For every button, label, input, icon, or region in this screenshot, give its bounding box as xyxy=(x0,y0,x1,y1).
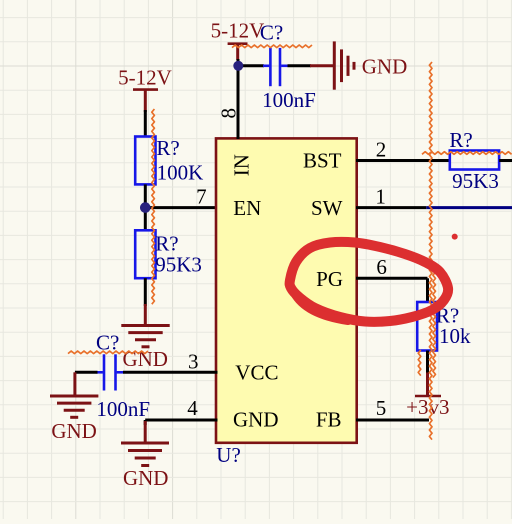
capacitor C2 100nF xyxy=(96,331,150,422)
svg-text:SW: SW xyxy=(311,196,343,220)
svg-text:95K3: 95K3 xyxy=(155,253,202,277)
ERC squiggle V4 below R4 xyxy=(418,350,421,376)
svg-text:FB: FB xyxy=(316,407,342,431)
svg-text:U?: U? xyxy=(216,443,241,467)
svg-text:4: 4 xyxy=(187,396,198,420)
svg-text:GND: GND xyxy=(51,419,97,443)
svg-text:GND: GND xyxy=(362,55,408,79)
junction node EN divider xyxy=(140,202,151,213)
wire R1 to R2 xyxy=(144,184,147,230)
wire power to R1 xyxy=(144,110,147,138)
resistor R2 95K3 xyxy=(135,230,202,278)
wire R3 to edge xyxy=(499,159,512,162)
ground A below R2 xyxy=(121,304,169,371)
svg-text:10k: 10k xyxy=(439,324,471,348)
resistor R3 95K3 xyxy=(449,128,499,193)
svg-text:100nF: 100nF xyxy=(262,88,316,112)
svg-text:5-12V: 5-12V xyxy=(118,66,172,90)
resistor R4 10k xyxy=(417,302,471,351)
ERC squiggle V3 R4 right xyxy=(433,272,436,378)
power port +3v3 xyxy=(406,373,449,420)
svg-text:100K: 100K xyxy=(157,161,204,185)
regulator U1 body xyxy=(216,138,357,442)
capacitor C1 100nF xyxy=(260,20,316,112)
svg-text:R?: R? xyxy=(156,136,179,160)
resistor R1 100K xyxy=(135,136,203,185)
power port 5-12V (top) xyxy=(211,18,265,60)
wire VCC pin 3 xyxy=(123,371,218,374)
svg-text:VCC: VCC xyxy=(235,360,278,384)
wire top node to C1 xyxy=(238,64,264,67)
wire PG pin 6 xyxy=(356,278,428,303)
ERC squiggle H1 top xyxy=(232,45,312,48)
svg-text:EN: EN xyxy=(233,196,261,220)
wire SW pin 1 (pin) xyxy=(356,206,426,209)
svg-text:R?: R? xyxy=(449,128,472,152)
svg-text:95K3: 95K3 xyxy=(452,169,499,193)
svg-text:7: 7 xyxy=(196,185,207,209)
svg-text:PG: PG xyxy=(316,267,343,291)
svg-text:100nF: 100nF xyxy=(96,397,150,421)
ERC squiggle H3 above C2 xyxy=(68,351,148,354)
svg-text:3: 3 xyxy=(188,349,199,373)
wire EN pin 7 xyxy=(145,206,217,209)
ground D right of C1 xyxy=(310,41,407,89)
svg-text:2: 2 xyxy=(376,138,387,162)
wire FB pin 5 xyxy=(356,419,429,422)
ERC squiggle V1 left divider xyxy=(152,109,155,304)
ERC squiggle H2 R3 row xyxy=(422,152,512,155)
junction node top xyxy=(233,61,243,71)
wire R2 to ground A xyxy=(144,278,147,306)
wire SW net (blue) xyxy=(426,206,512,209)
ground C below pin 4 xyxy=(121,421,169,490)
svg-text:BST: BST xyxy=(303,149,342,173)
ground B left xyxy=(50,372,98,443)
svg-text:1: 1 xyxy=(375,185,386,209)
svg-text:GND: GND xyxy=(233,407,279,431)
svg-text:GND: GND xyxy=(123,466,169,490)
svg-text:C?: C? xyxy=(260,20,283,44)
ERC squiggle V2 right long xyxy=(429,62,432,440)
svg-text:+3v3: +3v3 xyxy=(406,395,449,419)
svg-text:5-12V: 5-12V xyxy=(211,18,265,42)
wire R4 to power xyxy=(426,351,429,375)
red annotation dot xyxy=(452,234,458,240)
power port 5-12V (left) xyxy=(118,66,172,113)
svg-text:6: 6 xyxy=(376,255,387,279)
svg-text:IN: IN xyxy=(230,154,254,176)
red annotation circle around PG xyxy=(290,242,449,322)
wire pin 8 IN xyxy=(237,59,240,139)
svg-text:5: 5 xyxy=(376,396,387,420)
wire GND pin 4 xyxy=(145,420,217,425)
wire C2 to ground B xyxy=(75,371,98,374)
wire C1 to ground D xyxy=(288,64,312,67)
wire BST pin 2 xyxy=(356,159,450,162)
